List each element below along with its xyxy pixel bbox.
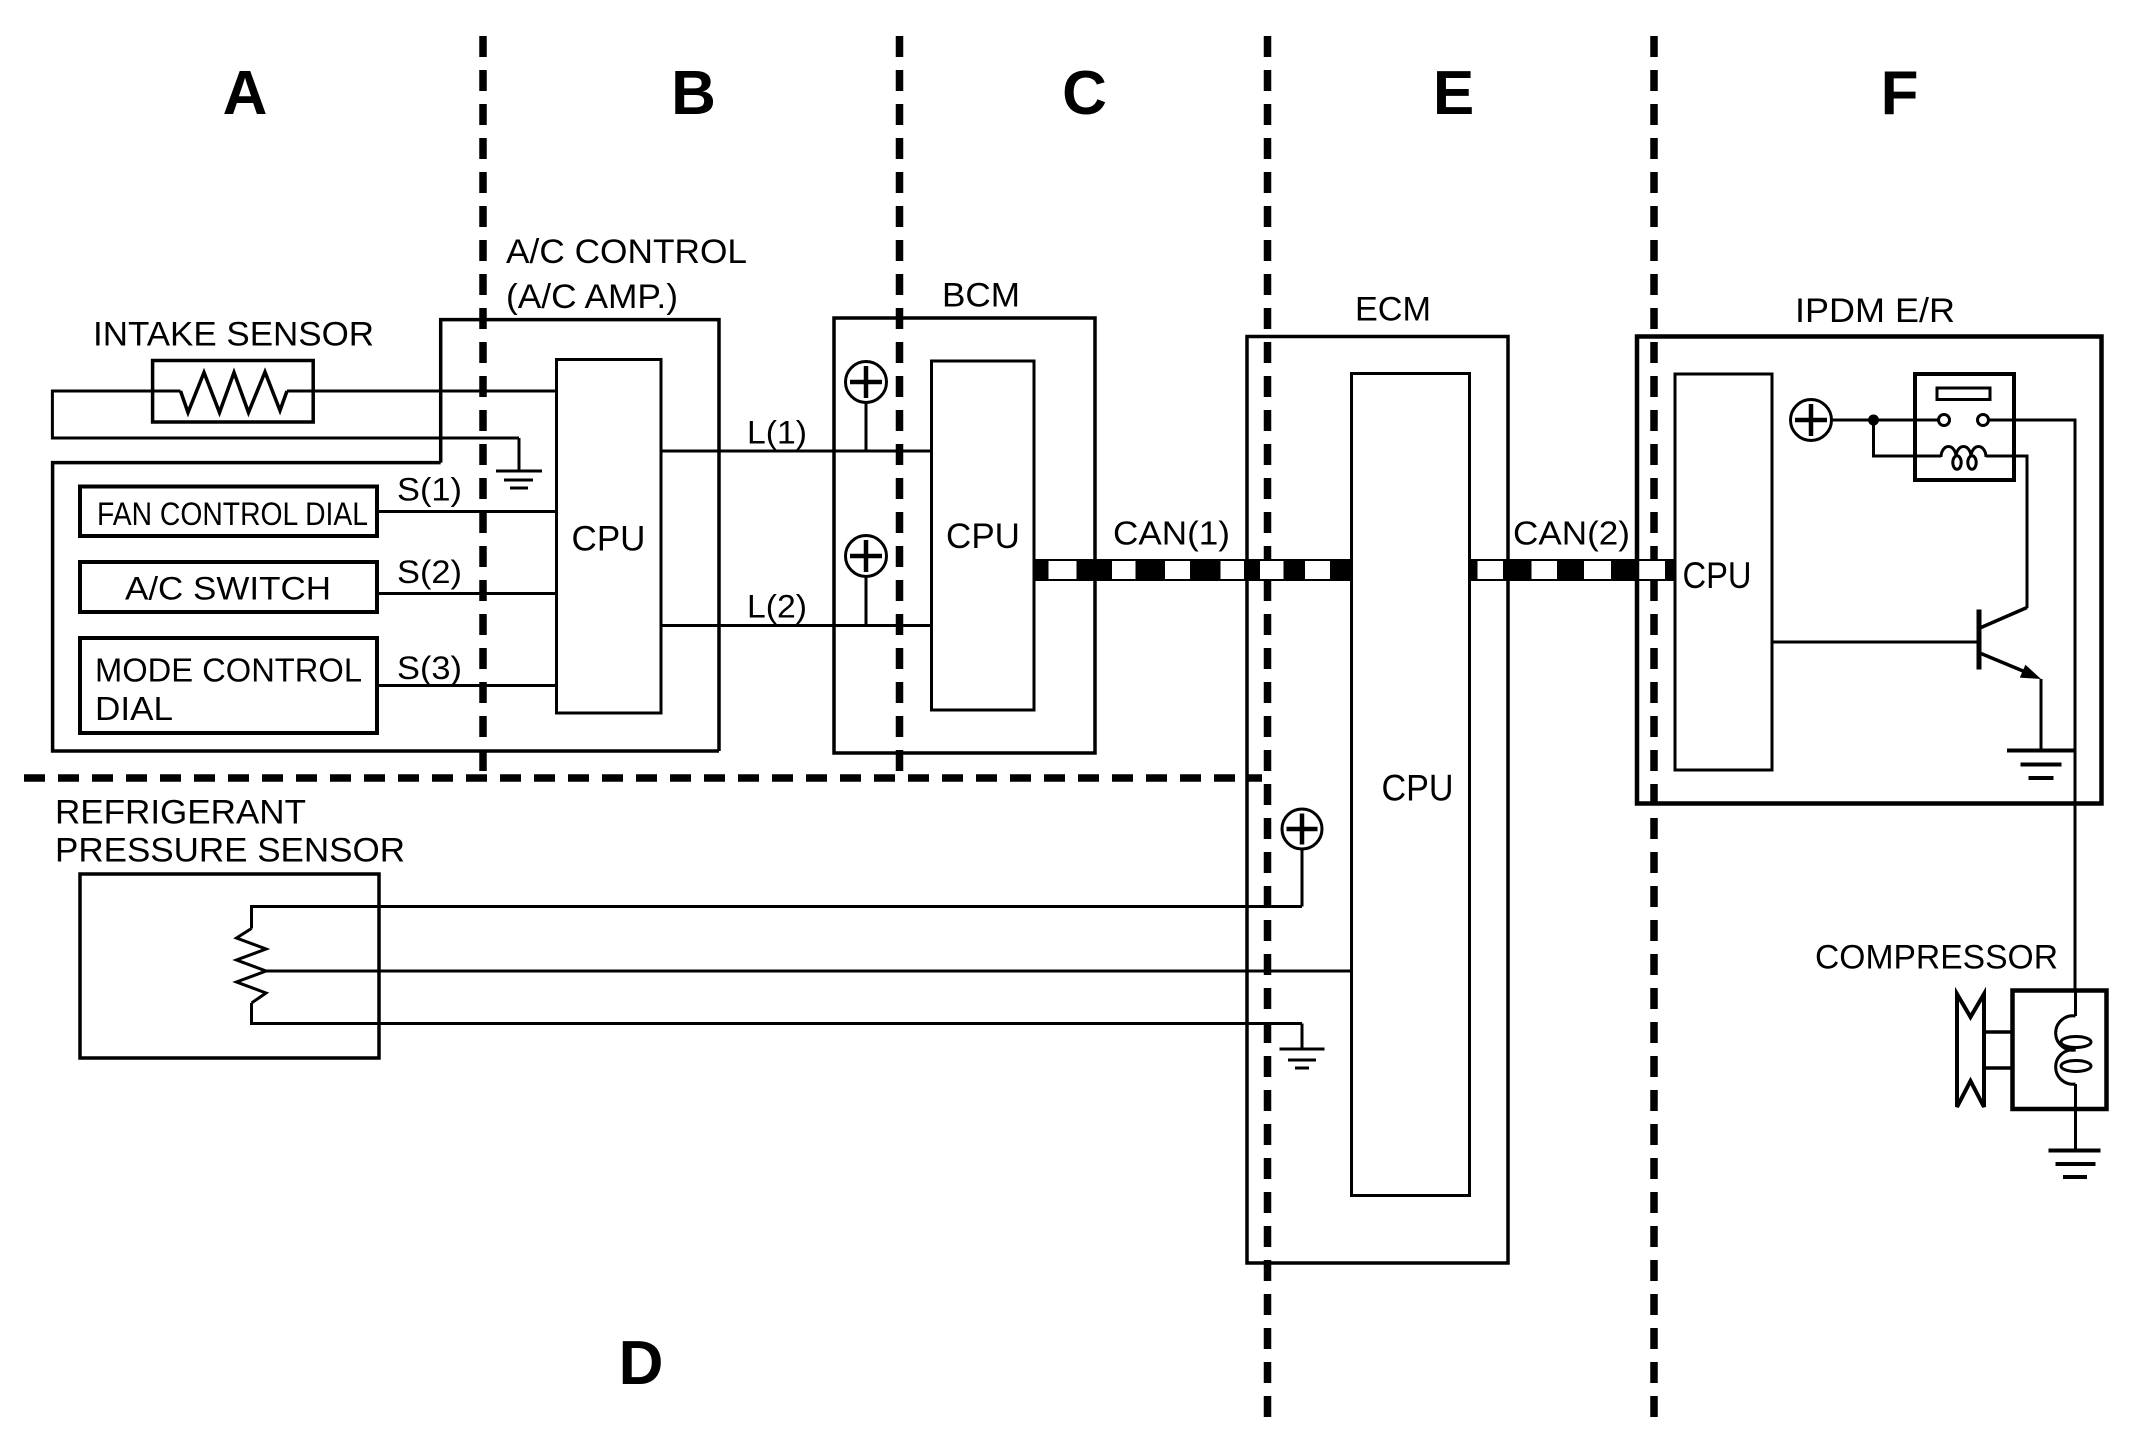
svg-text:IPDM E/R: IPDM E/R [1795,292,1955,330]
wire S(1) [377,510,557,513]
refrigerant sensor resistor (vertical zigzag) [237,929,267,1004]
battery symbol B3 (ECM) [1282,809,1322,907]
svg-text:CPU: CPU [1382,768,1454,809]
svg-text:L(2): L(2) [747,589,807,625]
svg-text:L(1): L(1) [747,415,807,451]
wire sensor middle tap to ECM CPU [266,970,1352,973]
svg-text:MODE CONTROL: MODE CONTROL [95,652,362,689]
svg-text:F: F [1881,59,1919,128]
ground (A/C amp.) [496,438,542,488]
svg-text:S(3): S(3) [397,650,462,686]
svg-text:PRESSURE SENSOR: PRESSURE SENSOR [55,832,405,870]
svg-text:E: E [1433,59,1474,128]
ground (ECM) [1280,1024,1325,1069]
wire junction to relay coil [1874,420,1942,456]
relay coil [1941,447,1986,470]
svg-text:REFRIGERANT: REFRIGERANT [55,794,306,832]
wire S(2) [377,592,557,595]
BCM CPU box U2 [932,361,1035,710]
relay contact terminal left [1939,415,1950,426]
pulley shaft bars [1984,1030,2013,1034]
wire IPDM CPU to transistor base [1772,641,1979,644]
IPDM CPU box U4 [1675,374,1772,770]
svg-text:C: C [1062,59,1107,128]
zone boundary dashed line E/F [1650,36,1658,1417]
relay K1 box [1915,374,2014,480]
svg-text:CPU: CPU [572,520,646,559]
svg-text:ECM: ECM [1355,291,1431,329]
svg-text:INTAKE SENSOR: INTAKE SENSOR [93,316,374,354]
zone boundary dashed line A/B [479,36,487,772]
control panel container box (merged with A/C amp outline) [53,463,719,751]
zone boundary dashed line B/C [896,36,904,772]
wire sensor bottom terminal to ECM ground [252,1003,1303,1024]
svg-text:B: B [671,59,716,128]
wire L(2) [661,624,932,627]
battery symbol B1 (BCM L1) [846,362,887,452]
A/C amp outer box (left edge stops at container top) [441,320,719,751]
relay contact terminal right [1978,415,1989,426]
fan control dial box [80,487,377,537]
svg-text:S(2): S(2) [397,554,462,590]
compressor pulley [1957,994,1984,1107]
svg-text:CAN(2): CAN(2) [1513,515,1630,552]
ground (compressor) [2049,1151,2101,1178]
mode control dial box [80,638,377,733]
resistor zigzag (intake sensor) [181,372,288,413]
junction node (battery/coil) [1868,415,1879,426]
wire transistor emitter to ground [2040,679,2043,751]
zone boundary dashed line C/E [1264,36,1272,1417]
svg-text:A/C CONTROL: A/C CONTROL [506,233,747,271]
A/C amp CPU box U1 [557,360,662,714]
compressor box [2013,991,2107,1110]
a/c switch box [80,562,377,612]
battery symbol B4 (IPDM) [1791,400,1832,441]
compressor clutch coil L1 [2056,991,2091,1151]
svg-text:CAN(1): CAN(1) [1113,515,1230,552]
svg-text:A/C SWITCH: A/C SWITCH [125,571,331,607]
wire relay coil to transistor collector [1986,456,2027,608]
BCM outer box [834,318,1095,753]
svg-text:DIAL: DIAL [95,690,173,727]
svg-text:D: D [619,1329,664,1398]
svg-text:A: A [223,59,268,128]
intake sensor box [153,361,314,423]
svg-text:BCM: BCM [942,277,1020,315]
wire relay contact to compressor [1989,420,2076,991]
svg-text:COMPRESSOR: COMPRESSOR [1815,939,2058,977]
wire intake sensor left terminal [52,391,519,438]
svg-text:CPU: CPU [1683,555,1752,596]
wire sensor top terminal to ECM battery [252,907,1303,929]
wire intake sensor right terminal to A/C CPU [287,390,557,393]
svg-text:S(1): S(1) [397,472,462,508]
ground (transistor emitter) [2007,751,2075,779]
zone boundary horizontal dashed line (D section) [24,774,1262,782]
ECM outer box [1247,337,1508,1264]
CAN(2) bus (checkered) [1470,559,1676,581]
relay armature bar [1937,388,1990,400]
svg-text:FAN CONTROL DIAL: FAN CONTROL DIAL [97,496,368,532]
wire battery to relay contact [1832,419,1939,422]
refrigerant pressure sensor box [80,874,379,1058]
ECM CPU box U3 [1352,374,1470,1196]
CAN(1) bus (checkered) [1034,559,1352,581]
svg-text:CPU: CPU [946,517,1020,556]
wire L(1) [661,450,932,453]
IPDM E/R outer box [1637,337,2102,804]
svg-text:(A/C AMP.): (A/C AMP.) [506,278,678,316]
battery symbol B2 (BCM L2) [846,536,887,626]
transistor Q1 [1979,608,2041,680]
wire S(3) [377,684,557,687]
